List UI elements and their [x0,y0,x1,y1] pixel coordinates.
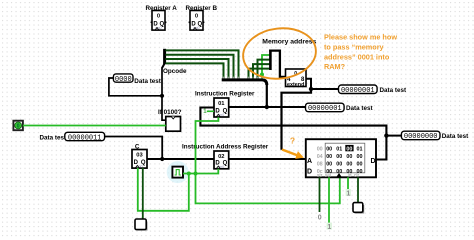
highlighted memory cell [345,145,353,151]
opcode bit wire y=59 [166,59,229,79]
svg-text:Data test: Data test [40,134,67,141]
RAM clr wire [357,177,359,202]
constant 1 at ld [346,189,351,198]
annotation arrow to RAM address input [282,150,304,159]
svg-text:04: 04 [317,154,323,160]
RAM output feedback wire to instruction register D [200,108,386,160]
svg-text:Memory address: Memory address [262,38,316,45]
memory address bit2 wire [253,64,270,78]
annotation text [324,33,397,71]
input pin (value 0) [13,121,23,131]
opcode splitter trunk diagonal [162,64,165,69]
button (RAM clear) [353,203,363,213]
svg-text:Data test: Data test [134,78,161,85]
probe 00000001 (extender output) [339,85,378,95]
RAM str wire [319,177,321,212]
svg-text:00: 00 [357,161,363,167]
instruction splitter spine bar [222,80,267,85]
svg-text:00: 00 [336,154,342,160]
instruction register output bus [229,106,306,108]
svg-text:08: 08 [317,161,323,167]
svg-text:Instruction Register: Instruction Register [195,90,255,97]
opcode bit wire y=63.4 [166,63,224,78]
memory address bit0 wire (high, bright) [262,55,270,79]
clock wire to RAM [196,174,340,204]
probe 00000000 (RAM output) [401,131,440,141]
junction node on RAM output wire [384,133,388,137]
clock wire to instruction register [196,117,219,173]
opcode bit wire y=50.4 [166,50,239,78]
probe 0000 (opcode data test) [113,74,133,84]
svg-text:RAM?: RAM? [324,62,346,71]
junction node clock wire 2 [194,172,198,176]
bit extender box [286,69,307,88]
svg-text:1: 1 [346,191,350,198]
memory address splitter trunk [269,51,285,77]
svg-text:to pass “memory: to pass “memory [324,43,385,52]
wire from opcode data test probe [109,78,162,96]
memory address splitter spine [269,50,272,71]
annotation ellipse [240,24,319,83]
svg-text:00: 00 [357,154,363,160]
RAM ld wire [347,177,349,189]
comparator box [166,117,181,132]
probe 00000001 (instruction register) [306,103,345,113]
svg-text:0000: 0000 [115,76,132,84]
register C to IAR bus [147,158,214,160]
junction node on opcode bus [160,94,164,98]
dangling memory address wire [282,89,312,150]
clock wire to instruction address register [183,169,218,174]
RAM [306,139,376,179]
svg-text:1: 1 [327,224,331,231]
opcode bus wire from splitter to comparator [162,68,166,121]
instruction register [214,98,229,117]
svg-text:extend: extend [287,82,304,88]
register B [189,11,205,31]
memory address bit3 wire [249,69,270,79]
clock [167,161,189,183]
svg-text:00: 00 [346,154,352,160]
svg-text:01: 01 [336,147,342,153]
svg-text:00: 00 [317,147,323,153]
wire register C to button [142,168,144,219]
wire from probe 00000011 to C output net [105,137,163,160]
junction node on C output bus [160,157,164,161]
junction node at splitter trunk [265,105,269,109]
svg-text:D: D [307,168,312,175]
svg-text:A: A [307,158,312,165]
wire from input pin to comparator [23,125,166,127]
svg-text:0: 0 [17,124,20,130]
svg-text:If 0100?: If 0100? [158,109,182,116]
opcode splitter spine [163,49,166,64]
register A [151,11,167,31]
wire from bit extender output [306,79,339,89]
svg-text:01: 01 [218,101,225,107]
constant 1 at sel [327,223,332,232]
clock wire to register C [138,168,189,211]
svg-text:0: 0 [195,14,198,20]
junction on bit0 wire [260,73,264,77]
svg-text:0: 0 [318,215,322,222]
svg-text:sel: sel [325,173,331,179]
svg-text:03: 03 [136,153,143,159]
svg-text:00000011: 00000011 [68,134,102,142]
memory address bit1 wire [258,60,270,79]
svg-text:00000001: 00000001 [341,87,375,95]
wire to RAM output probe [386,135,401,137]
svg-text:00000001: 00000001 [308,105,342,113]
svg-text:?: ? [290,136,295,146]
probe 00000011 [65,132,105,142]
svg-text:Data test: Data test [442,133,469,140]
svg-text:Data test: Data test [346,105,373,112]
svg-text:Data test: Data test [380,87,407,94]
instruction splitter trunk wire [266,84,268,107]
button (register C) [135,219,147,230]
svg-text:01: 01 [357,147,363,153]
svg-text:00: 00 [326,154,332,160]
svg-text:00: 00 [326,147,332,153]
svg-text:D: D [371,158,376,165]
junction node at extender output [309,87,313,91]
splitter pin nubs [224,77,263,79]
IAR output bus to RAM address [229,158,306,160]
svg-text:02: 02 [218,154,224,160]
svg-text:00000000: 00000000 [404,133,438,141]
instruction address register [214,151,229,169]
opcode bit wire y=54.8 [166,55,234,79]
junction node clock wire 1 [187,172,191,176]
svg-text:0: 0 [157,14,160,20]
wire from constant 1 to instruction register [207,110,214,112]
svg-text:Please show me how: Please show me how [324,33,397,42]
register C [132,150,147,169]
RAM sel wire [328,177,330,223]
svg-text:Opcode: Opcode [163,68,187,75]
svg-text:00: 00 [326,161,332,167]
svg-text:00: 00 [346,147,352,153]
svg-text:00: 00 [336,161,342,167]
svg-text:00: 00 [346,161,352,167]
svg-text:address” 0001 into: address” 0001 into [324,52,390,61]
